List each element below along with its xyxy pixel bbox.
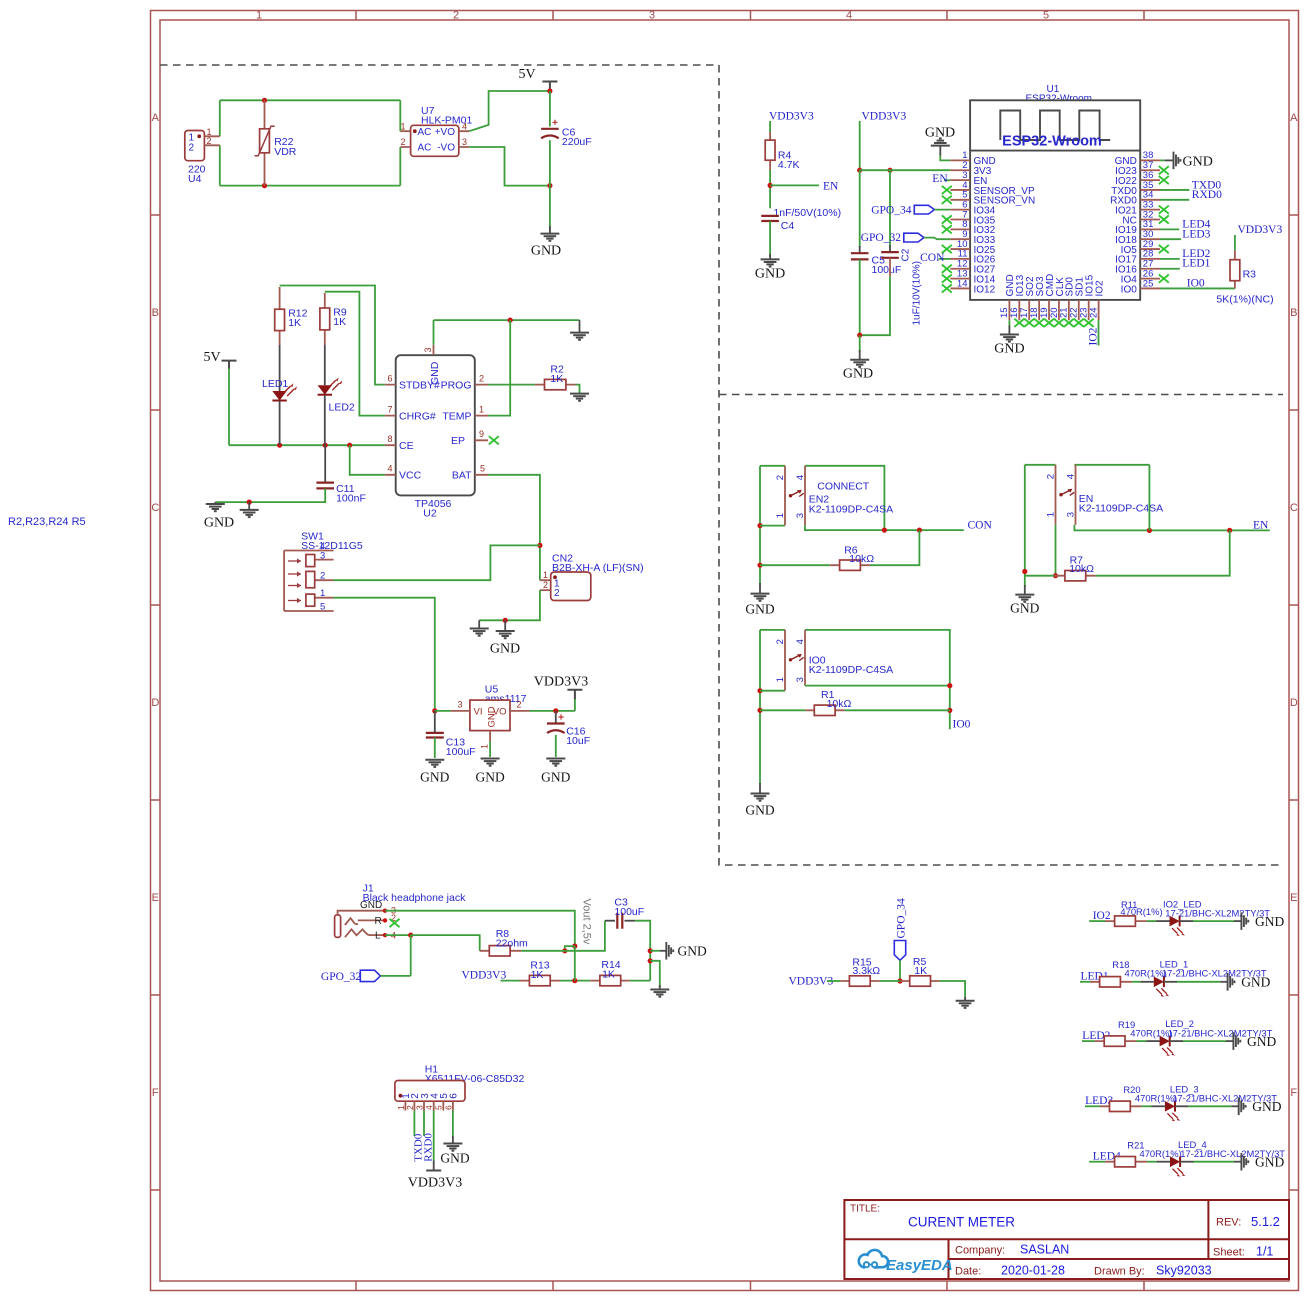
resistor R1 10k bbox=[806, 689, 852, 716]
svg-text:IO0: IO0 bbox=[953, 719, 971, 731]
svg-text:ESP32-Wroom: ESP32-Wroom bbox=[1002, 134, 1102, 150]
ground bbox=[1015, 595, 1034, 602]
svg-text:R2,R23,R24 R5: R2,R23,R24 R5 bbox=[8, 516, 86, 528]
svg-text:1K: 1K bbox=[602, 969, 615, 981]
wire bbox=[860, 276, 890, 335]
wire bbox=[760, 709, 806, 711]
no-connect X bbox=[942, 186, 952, 194]
svg-text:9: 9 bbox=[479, 429, 484, 439]
svg-text:R3: R3 bbox=[1243, 268, 1257, 280]
svg-text:6: 6 bbox=[387, 373, 392, 383]
svg-text:1: 1 bbox=[543, 570, 548, 580]
svg-text:R: R bbox=[375, 916, 382, 927]
svg-text:4: 4 bbox=[795, 639, 806, 644]
svg-text:2: 2 bbox=[554, 588, 560, 599]
svg-text:4: 4 bbox=[462, 121, 467, 131]
svg-text:10kΩ: 10kΩ bbox=[849, 553, 874, 565]
svg-text:3: 3 bbox=[795, 513, 806, 518]
wire bbox=[760, 564, 830, 566]
svg-text:Date:: Date: bbox=[955, 1266, 981, 1278]
svg-text:22ohm: 22ohm bbox=[496, 938, 528, 950]
svg-text:470R(1%): 470R(1%) bbox=[1120, 906, 1162, 917]
svg-text:VDD3V3: VDD3V3 bbox=[769, 110, 814, 122]
no-connect X bbox=[1024, 319, 1034, 327]
wire bbox=[410, 935, 412, 976]
svg-text:GND: GND bbox=[1241, 975, 1270, 990]
svg-text:4.7K: 4.7K bbox=[778, 159, 800, 171]
svg-text:IO0: IO0 bbox=[1187, 278, 1205, 290]
junction bbox=[947, 708, 952, 713]
svg-text:IO0: IO0 bbox=[1121, 284, 1138, 295]
wire bbox=[1089, 920, 1105, 922]
capacitor C13 100uF bbox=[426, 711, 476, 758]
wire bbox=[549, 140, 551, 185]
svg-text:L: L bbox=[375, 931, 381, 942]
wire bbox=[1025, 575, 1054, 577]
svg-text:K2-1109DP-C4SA: K2-1109DP-C4SA bbox=[809, 503, 893, 515]
wire bbox=[770, 184, 819, 186]
wire bbox=[1160, 199, 1189, 201]
wire bbox=[280, 286, 385, 385]
wire bbox=[469, 147, 550, 186]
junction bbox=[553, 708, 558, 713]
svg-text:VDD3V3: VDD3V3 bbox=[789, 975, 834, 987]
resistor R3 5K bbox=[1230, 250, 1256, 288]
wire bbox=[760, 629, 785, 631]
svg-text:100uF: 100uF bbox=[872, 264, 902, 276]
svg-text:IO2: IO2 bbox=[1093, 910, 1111, 922]
junction bbox=[277, 443, 282, 448]
svg-text:5: 5 bbox=[434, 1105, 444, 1110]
wire bbox=[385, 911, 575, 946]
svg-text:REV:: REV: bbox=[1216, 1217, 1241, 1229]
wire bbox=[759, 630, 761, 785]
wire bbox=[859, 335, 861, 352]
ground bbox=[496, 631, 515, 638]
svg-text:GND: GND bbox=[745, 803, 774, 818]
svg-text:2: 2 bbox=[189, 143, 195, 154]
no-connect X bbox=[1159, 245, 1169, 253]
frame column ticks bbox=[356, 11, 1144, 1291]
svg-text:CE: CE bbox=[399, 440, 414, 452]
wire bbox=[769, 170, 771, 208]
wire bbox=[635, 921, 650, 981]
wire bbox=[334, 598, 435, 711]
svg-text:2: 2 bbox=[400, 137, 405, 147]
junction bbox=[917, 528, 922, 533]
svg-text:IO12: IO12 bbox=[974, 284, 996, 295]
wire bbox=[934, 209, 950, 211]
wire bbox=[1160, 238, 1181, 240]
junction bbox=[857, 168, 862, 173]
wire bbox=[940, 156, 950, 161]
capacitor C2 1uF/10V bbox=[881, 170, 922, 325]
wire bbox=[488, 320, 510, 416]
svg-text:8: 8 bbox=[387, 434, 392, 444]
net flag GPO_34 bbox=[871, 204, 934, 216]
frame row ticks bbox=[151, 215, 1299, 1190]
svg-text:B: B bbox=[152, 307, 159, 319]
junction bbox=[547, 88, 552, 93]
svg-text:2: 2 bbox=[479, 373, 484, 383]
junction bbox=[757, 688, 762, 693]
U1 bottom pins bbox=[1009, 300, 1098, 320]
wire bbox=[385, 934, 411, 936]
ground bbox=[546, 759, 565, 766]
svg-text:GND: GND bbox=[745, 602, 774, 617]
wire bbox=[1160, 189, 1189, 191]
wire bbox=[555, 735, 557, 757]
ground bbox=[1239, 1098, 1246, 1116]
svg-text:LED3: LED3 bbox=[1182, 228, 1210, 240]
regulator U5 ams1117 bbox=[451, 684, 530, 749]
svg-text:PROG: PROG bbox=[441, 379, 472, 391]
junction bbox=[757, 563, 762, 568]
svg-text:1: 1 bbox=[479, 404, 484, 414]
svg-text:220uF: 220uF bbox=[562, 136, 592, 148]
resistor R9 1K bbox=[320, 293, 347, 345]
wire bbox=[1160, 268, 1180, 270]
wire bbox=[1096, 530, 1230, 575]
power flag VDD3V3 (down) bbox=[408, 1161, 462, 1191]
svg-text:2: 2 bbox=[320, 571, 325, 582]
junction bbox=[262, 183, 267, 188]
resistor R6 10k bbox=[830, 544, 875, 570]
svg-text:5: 5 bbox=[320, 602, 325, 613]
resistor R5 1K bbox=[900, 956, 940, 986]
svg-text:GND: GND bbox=[360, 900, 382, 911]
resistor R19 470R bbox=[1095, 1019, 1173, 1046]
svg-text:1: 1 bbox=[1045, 512, 1056, 517]
wire bbox=[1137, 1040, 1147, 1042]
junction bbox=[262, 98, 267, 103]
svg-text:7: 7 bbox=[387, 404, 392, 414]
wire bbox=[1147, 920, 1156, 922]
power flag VDD3V3 bbox=[534, 675, 588, 701]
wire bbox=[1160, 228, 1179, 230]
svg-text:100uF: 100uF bbox=[614, 906, 644, 918]
svg-text:470R(1%): 470R(1%) bbox=[1140, 1148, 1182, 1159]
resistor R13 1K bbox=[520, 959, 561, 985]
wire bbox=[880, 980, 900, 982]
junction bbox=[1147, 528, 1152, 533]
resistor R20 470R bbox=[1100, 1084, 1177, 1111]
resistor R21 470R bbox=[1105, 1140, 1182, 1167]
svg-text:2: 2 bbox=[405, 1105, 415, 1110]
U1 left pin numbers bbox=[957, 150, 968, 289]
ground bbox=[650, 990, 669, 997]
svg-text:24: 24 bbox=[1088, 307, 1099, 318]
svg-text:1: 1 bbox=[400, 121, 405, 131]
LED LED2 bbox=[318, 345, 355, 445]
svg-text:GPO_34: GPO_34 bbox=[895, 898, 907, 939]
svg-text:C2: C2 bbox=[901, 248, 912, 261]
ground bbox=[443, 1144, 462, 1151]
svg-text:VCC: VCC bbox=[399, 470, 422, 482]
varistor R22 VDR bbox=[255, 100, 297, 185]
wire bbox=[805, 685, 950, 687]
wire bbox=[650, 950, 660, 952]
no-connect X bbox=[1014, 319, 1024, 327]
no-connect X bbox=[1159, 166, 1169, 174]
wire bbox=[530, 710, 575, 712]
svg-text:1: 1 bbox=[320, 588, 325, 599]
svg-text:GND: GND bbox=[204, 516, 234, 531]
LED LED_1 17-21/BHC-XL2M2TY/3T bbox=[1140, 958, 1267, 996]
wire bbox=[413, 1111, 415, 1137]
capacitor C4 1nF/50V bbox=[761, 207, 841, 232]
svg-text:5.1.2: 5.1.2 bbox=[1251, 1214, 1280, 1229]
svg-text:Company:: Company: bbox=[955, 1245, 1005, 1257]
svg-text:GPO_32: GPO_32 bbox=[861, 232, 902, 244]
wire bbox=[479, 590, 540, 620]
svg-text:GND: GND bbox=[486, 706, 497, 727]
svg-text:1K: 1K bbox=[288, 317, 301, 329]
switch EN K2-1109DP-C4SA bbox=[1045, 465, 1163, 525]
wire bbox=[1177, 981, 1220, 983]
svg-text:SASLAN: SASLAN bbox=[1020, 1243, 1069, 1257]
U1 right pin names bbox=[1110, 156, 1137, 295]
junction bbox=[323, 443, 328, 448]
svg-text:1: 1 bbox=[775, 513, 786, 518]
svg-text:CHRG#: CHRG# bbox=[399, 410, 436, 422]
title block frame bbox=[844, 1200, 1289, 1279]
wire bbox=[489, 741, 491, 757]
svg-text:2: 2 bbox=[1045, 474, 1056, 479]
svg-text:5V: 5V bbox=[518, 67, 535, 82]
wire bbox=[760, 690, 785, 692]
connector J1 Black headphone jack bbox=[335, 883, 466, 942]
no-connect X bbox=[942, 265, 952, 273]
frame row letters right bbox=[1290, 112, 1298, 1099]
wire bbox=[1008, 320, 1010, 327]
resistor R4 4.7K bbox=[765, 132, 799, 171]
wire bbox=[1160, 287, 1235, 289]
svg-text:10uF: 10uF bbox=[566, 735, 590, 747]
net flag GPO_32 bbox=[321, 970, 381, 983]
svg-text:GND: GND bbox=[843, 367, 873, 382]
svg-text:GND: GND bbox=[490, 642, 520, 657]
no-connect X bbox=[942, 245, 952, 253]
svg-text:D: D bbox=[151, 697, 159, 709]
svg-text:2: 2 bbox=[775, 475, 786, 480]
junction bbox=[882, 528, 887, 533]
svg-text:IO2: IO2 bbox=[1087, 327, 1099, 345]
U1 right pin numbers bbox=[1143, 150, 1154, 289]
svg-text:VDD3V3: VDD3V3 bbox=[1238, 224, 1283, 236]
wire bbox=[940, 981, 966, 999]
wire bbox=[549, 91, 551, 127]
ground bbox=[1241, 912, 1248, 930]
no-connect X bbox=[1044, 319, 1054, 327]
wire bbox=[1098, 320, 1100, 345]
svg-text:1/1: 1/1 bbox=[1256, 1245, 1273, 1259]
U1 right pins bbox=[1140, 160, 1160, 288]
LED LED_3 17-21/BHC-XL2M2TY/3T bbox=[1152, 1084, 1278, 1122]
no-connect X bbox=[942, 225, 952, 233]
wire bbox=[899, 960, 901, 981]
no-connect X bbox=[1074, 319, 1084, 327]
U1 left pins bbox=[950, 160, 970, 288]
wire bbox=[1188, 1105, 1231, 1107]
svg-text:1: 1 bbox=[479, 744, 489, 749]
wire bbox=[845, 709, 950, 711]
ground bbox=[570, 333, 589, 340]
svg-text:1uF/10V(10%): 1uF/10V(10%) bbox=[912, 261, 923, 325]
svg-text:3: 3 bbox=[462, 137, 467, 147]
wire bbox=[433, 320, 435, 345]
wire bbox=[399, 147, 401, 186]
svg-text:GND: GND bbox=[1255, 914, 1284, 929]
svg-text:GND: GND bbox=[994, 342, 1024, 357]
svg-text:3: 3 bbox=[320, 550, 325, 561]
wire bbox=[220, 99, 400, 101]
svg-text:K2-1109DP-C4SA: K2-1109DP-C4SA bbox=[809, 664, 893, 676]
wire bbox=[565, 946, 575, 951]
junction bbox=[1053, 573, 1058, 578]
svg-text:RXD0: RXD0 bbox=[423, 1133, 435, 1162]
svg-text:3: 3 bbox=[649, 10, 655, 22]
svg-text:GND: GND bbox=[1010, 601, 1039, 616]
wire bbox=[1055, 525, 1057, 576]
capacitor C16 10uF bbox=[547, 711, 590, 747]
no-connect X bbox=[1084, 319, 1094, 327]
connector CN2 B2B-XH-A bbox=[540, 553, 644, 601]
wire bbox=[1080, 981, 1090, 983]
svg-text:+VO: +VO bbox=[435, 127, 456, 138]
junction bbox=[562, 948, 567, 953]
wire bbox=[860, 169, 951, 171]
connector U4 220 bbox=[185, 127, 220, 185]
ground bbox=[425, 760, 444, 767]
svg-text:2: 2 bbox=[775, 639, 786, 644]
svg-text:E: E bbox=[152, 892, 159, 904]
svg-text:GND: GND bbox=[925, 126, 955, 141]
wire bbox=[827, 980, 840, 982]
svg-text:3: 3 bbox=[457, 700, 462, 710]
wire bbox=[1160, 159, 1165, 161]
ground bbox=[761, 259, 780, 266]
ground flag (inverted) at pin1 bbox=[939, 146, 941, 156]
LED IO2_LED 17-21/BHC-XL2M2TY/3T bbox=[1156, 898, 1270, 936]
power flag 5V bbox=[518, 67, 557, 91]
no-connect X bbox=[1159, 275, 1169, 283]
svg-text:U2: U2 bbox=[423, 508, 437, 520]
junction bbox=[857, 333, 862, 338]
svg-text:GND: GND bbox=[429, 361, 441, 385]
ground bbox=[751, 594, 770, 601]
svg-text:Drawn By:: Drawn By: bbox=[1094, 1266, 1145, 1278]
junction bbox=[508, 318, 513, 323]
resistor R8 22ohm bbox=[480, 928, 528, 956]
no-connect X bbox=[942, 275, 952, 283]
wire bbox=[1194, 1161, 1235, 1163]
svg-text:GPO_34: GPO_34 bbox=[871, 204, 912, 216]
svg-text:K2-1109DP-C4SA: K2-1109DP-C4SA bbox=[1079, 503, 1163, 515]
junction bbox=[897, 978, 902, 983]
svg-text:5: 5 bbox=[480, 464, 485, 474]
ground bbox=[240, 510, 259, 517]
svg-text:1K: 1K bbox=[914, 965, 927, 977]
junction bbox=[572, 978, 577, 983]
LED LED_2 17-21/BHC-XL2M2TY/3T bbox=[1146, 1018, 1272, 1056]
svg-text:F: F bbox=[1290, 1087, 1297, 1099]
wire bbox=[1148, 465, 1150, 531]
no-connect X bbox=[1054, 319, 1064, 327]
junction bbox=[1227, 528, 1232, 533]
junction bbox=[768, 183, 773, 188]
wire bbox=[859, 259, 861, 335]
junction bbox=[947, 683, 952, 688]
svg-text:5V: 5V bbox=[203, 350, 220, 365]
wire bbox=[944, 179, 950, 181]
svg-text:3: 3 bbox=[1065, 512, 1076, 517]
resistor R18 470R bbox=[1090, 959, 1167, 987]
svg-text:GND: GND bbox=[541, 770, 570, 785]
svg-text:5K(1%)(NC): 5K(1%)(NC) bbox=[1216, 294, 1273, 306]
svg-text:CURENT METER: CURENT METER bbox=[908, 1215, 1015, 1230]
svg-text:4: 4 bbox=[387, 464, 392, 474]
no-connect X bbox=[942, 196, 952, 204]
no-connect X bbox=[1159, 176, 1169, 184]
no-connect X bbox=[942, 284, 952, 292]
capacitor C5 100uF bbox=[851, 170, 901, 276]
switch SW1 SS-12D11G5 bbox=[284, 531, 363, 613]
svg-text:F: F bbox=[152, 1087, 159, 1099]
svg-text:Sky92033: Sky92033 bbox=[1156, 1264, 1212, 1278]
svg-text:VDD3V3: VDD3V3 bbox=[862, 110, 907, 122]
wire bbox=[399, 100, 401, 131]
junction bbox=[887, 168, 892, 173]
svg-text:LED1: LED1 bbox=[1182, 258, 1210, 270]
svg-text:1K: 1K bbox=[333, 316, 346, 328]
AC/DC module U7 HLK-PM01 bbox=[400, 105, 472, 157]
IC U2 TP4056 bbox=[385, 345, 488, 520]
wire bbox=[220, 185, 400, 187]
svg-text:1K: 1K bbox=[531, 969, 544, 981]
svg-text:1: 1 bbox=[256, 10, 262, 22]
wire bbox=[434, 738, 436, 759]
wire bbox=[1147, 1161, 1157, 1163]
svg-text:C: C bbox=[151, 502, 159, 514]
svg-text:EP: EP bbox=[451, 435, 465, 447]
wire bbox=[325, 292, 385, 416]
svg-text:GND: GND bbox=[475, 770, 504, 785]
resistor R15 3.3k bbox=[840, 956, 880, 986]
wire bbox=[423, 1111, 425, 1137]
svg-text:4: 4 bbox=[795, 475, 806, 480]
svg-text:A: A bbox=[1290, 112, 1298, 124]
svg-text:CON: CON bbox=[968, 519, 993, 531]
wire bbox=[859, 170, 861, 247]
svg-text:25: 25 bbox=[1143, 278, 1154, 289]
ground bbox=[850, 360, 869, 367]
wire bbox=[759, 466, 761, 586]
ground bbox=[570, 394, 589, 401]
wire bbox=[1025, 464, 1056, 466]
svg-text:E: E bbox=[1290, 892, 1297, 904]
U1 left pin names bbox=[974, 156, 1036, 295]
no-connect X bbox=[942, 215, 952, 223]
svg-text:6: 6 bbox=[449, 1093, 460, 1099]
svg-text:1: 1 bbox=[775, 677, 786, 682]
no-connect X bbox=[390, 919, 400, 927]
svg-text:10kΩ: 10kΩ bbox=[827, 698, 852, 710]
svg-text:3: 3 bbox=[795, 677, 806, 682]
wire bbox=[576, 385, 580, 394]
wire bbox=[924, 238, 951, 240]
svg-text:VDD3V3: VDD3V3 bbox=[462, 969, 507, 981]
